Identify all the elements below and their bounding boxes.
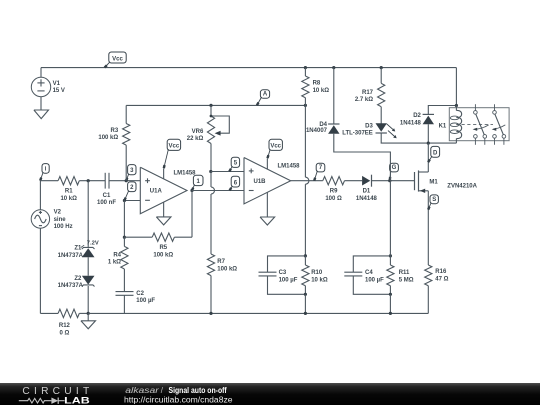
resistor R17 2.7 k: [380, 68, 382, 84]
junction coil top: [455, 104, 458, 107]
wire Vcc top rail: [41, 67, 456, 69]
svg-text:C2: C2: [136, 291, 144, 297]
svg-text:S: S: [432, 197, 436, 203]
svg-text:0 Ω: 0 Ω: [59, 331, 69, 337]
svg-text:http://circuitlab.com/cnda8ze: http://circuitlab.com/cnda8ze: [124, 396, 233, 405]
diode D1 1N4148: [362, 176, 370, 186]
svg-text:Vcc: Vcc: [270, 144, 281, 150]
junction rail/R17: [380, 66, 383, 69]
junction rail/R8: [304, 66, 307, 69]
U1B ground stub: [266, 192, 268, 217]
op-amp U1A LM1458: [140, 167, 187, 213]
svg-text:R9: R9: [330, 189, 338, 195]
potentiometer VR6 22 k: [210, 105, 212, 116]
node 6 flag: [231, 176, 239, 187]
svg-text:Z2: Z2: [74, 276, 82, 282]
svg-text:Z1: Z1: [74, 246, 82, 252]
svg-text:LM1458: LM1458: [278, 164, 301, 170]
svg-text:R8: R8: [313, 81, 321, 87]
resistor R7 100 k: [207, 254, 214, 276]
svg-text:A: A: [263, 92, 268, 98]
junction R10/rail: [304, 312, 307, 315]
svg-text:M1: M1: [429, 179, 438, 185]
svg-text:10 kΩ: 10 kΩ: [313, 88, 330, 94]
svg-text:Signal auto on-off: Signal auto on-off: [169, 386, 228, 395]
svg-text:G: G: [392, 165, 397, 171]
resistor R8 10 k: [304, 68, 306, 76]
capacitor C2 100 uF: [116, 291, 134, 293]
wire VR6 down to R7 with hop over pin6 wire: [210, 172, 212, 188]
svg-text:Vcc: Vcc: [112, 56, 123, 62]
node 2 flag: [128, 182, 136, 192]
relay K1 contact 1: [474, 104, 476, 110]
svg-text:R1: R1: [65, 189, 73, 195]
junction node G: [388, 179, 391, 182]
wire pin2 down to R4/R5 node: [123, 201, 125, 238]
node 3 flag: [128, 165, 136, 175]
junction D2/drain: [427, 142, 430, 145]
svg-text:ZVN4210A: ZVN4210A: [447, 183, 477, 189]
svg-text:D3: D3: [365, 124, 373, 130]
LED D3 light arrows: [387, 124, 394, 130]
svg-text:sine: sine: [54, 217, 67, 223]
relay K1 mechanical dashed link: [462, 124, 494, 126]
junction U1A output: [190, 189, 193, 192]
wire U1B output to node 7: [291, 180, 323, 182]
junction R4/R5: [123, 236, 126, 239]
junction C3/R10 bottom: [304, 293, 307, 296]
svg-text:1N4737A: 1N4737A: [58, 253, 84, 259]
wire R1 to C1: [79, 180, 105, 182]
svg-text:1N4737A: 1N4737A: [58, 283, 84, 289]
wire rail to D4: [333, 68, 335, 124]
voltage source V2 sine 100 Hz: [39, 181, 41, 210]
svg-text:D1: D1: [363, 189, 371, 195]
svg-text:LM1458: LM1458: [174, 171, 197, 177]
svg-text:100 kΩ: 100 kΩ: [98, 135, 118, 141]
junction A/VR6: [209, 104, 212, 107]
wire R5 to U1A output: [174, 236, 192, 238]
svg-text:D: D: [433, 151, 438, 157]
wire C1 to U1A pin3: [109, 180, 140, 182]
capacitor C3 100 uF: [268, 256, 306, 272]
junction R7/ground rail: [209, 312, 212, 315]
capacitor C1 100 nF: [104, 173, 106, 189]
diode D4 1N4007: [328, 123, 339, 125]
svg-text:R5: R5: [159, 245, 167, 251]
node S flag: [430, 195, 438, 204]
relay K1 contact 2: [494, 104, 496, 110]
wire node A horizontal: [126, 104, 305, 106]
svg-text:alkasar: alkasar: [125, 386, 159, 395]
node i flag: [42, 164, 49, 174]
junction R1/C1/Z1: [87, 179, 90, 182]
resistor R12 0 ohm: [58, 309, 79, 317]
wire Z2 to ground rail: [87, 286, 89, 313]
wire V2 top to R1: [40, 180, 58, 182]
svg-text:Vcc: Vcc: [169, 144, 180, 150]
svg-text:R7: R7: [217, 259, 225, 265]
svg-text:K1: K1: [439, 124, 447, 130]
wire Z chain from R1/C1 junction: [87, 181, 89, 248]
svg-text:R16: R16: [435, 269, 447, 275]
svg-text:R4: R4: [113, 252, 121, 258]
svg-text:R11: R11: [399, 270, 410, 276]
resistor R5 100 k: [152, 233, 174, 241]
junction A/R8: [304, 104, 307, 107]
svg-text:100 µF: 100 µF: [365, 278, 384, 284]
svg-text:22 kΩ: 22 kΩ: [187, 136, 204, 142]
svg-text:100 Ω: 100 Ω: [325, 196, 342, 202]
resistor R9 100 ohm: [323, 177, 345, 185]
MOSFET M1 ZVN4210A: [427, 143, 429, 172]
junction ground rail left: [87, 312, 90, 315]
node 7 flag: [316, 163, 325, 172]
wire R9 to D1: [345, 180, 363, 182]
junction VR6/pin5: [209, 170, 212, 173]
wire U1B pin5: [211, 171, 244, 173]
svg-text:100 kΩ: 100 kΩ: [153, 253, 173, 259]
resistor R11 5 M: [387, 265, 394, 286]
U1B Vcc stub: [266, 158, 268, 169]
node A flag: [260, 90, 269, 98]
wire D1 to MOSFET gate: [372, 180, 415, 182]
svg-text:VR6: VR6: [192, 129, 204, 135]
svg-text:R3: R3: [111, 128, 119, 134]
svg-text:5 MΩ: 5 MΩ: [399, 278, 414, 284]
svg-text:100 µF: 100 µF: [136, 298, 155, 304]
wire D4 to node G: [334, 134, 391, 181]
svg-text:1N4148: 1N4148: [356, 196, 378, 202]
svg-text:V1: V1: [53, 81, 61, 87]
power flag Vcc (U1B): [269, 139, 282, 150]
node G flag: [390, 163, 399, 172]
wire U1A out to U1B pin6: [192, 190, 244, 192]
svg-text:100 nF: 100 nF: [97, 200, 116, 206]
svg-text:D2: D2: [413, 113, 421, 119]
power flag Vcc (top): [109, 52, 126, 63]
wire R5 row: [124, 236, 152, 238]
svg-text:C1: C1: [103, 193, 111, 199]
zener diode Z1 1N4737A: [82, 247, 95, 249]
node 1 flag: [193, 175, 203, 185]
wire D2 top to coil junction: [428, 106, 456, 115]
U1A ground stub: [163, 202, 165, 217]
svg-text:100 µF: 100 µF: [279, 278, 298, 284]
wire U1A pin2: [124, 200, 140, 202]
VR6 wiper loop: [211, 116, 229, 133]
zener diode Z2 1N4737A: [82, 276, 95, 285]
svg-text:R10: R10: [311, 270, 323, 276]
resistor R1 10 k: [58, 177, 79, 185]
svg-text:LTL-307EE: LTL-307EE: [342, 130, 373, 136]
ground below V1: [34, 110, 49, 119]
junction C4/R11 bottom: [389, 293, 392, 296]
svg-text:1N4148: 1N4148: [400, 121, 422, 127]
svg-text:10 kΩ: 10 kΩ: [311, 278, 328, 284]
LED D3 LTL-307EE: [376, 132, 387, 134]
svg-text:U1B: U1B: [254, 179, 267, 185]
svg-text:R12: R12: [59, 323, 71, 329]
relay K1 coil: [455, 106, 457, 111]
svg-text:1N4007: 1N4007: [306, 128, 328, 134]
wire Z1 to Z2: [87, 257, 89, 276]
voltage source V1 15 V: [40, 68, 42, 78]
svg-text:1 kΩ: 1 kΩ: [108, 260, 121, 266]
svg-text:V2: V2: [54, 210, 62, 216]
svg-text:7.2V: 7.2V: [87, 240, 99, 246]
svg-text:LAB: LAB: [64, 395, 90, 405]
node D flag: [431, 146, 440, 157]
wire D3 to relay/D2 row: [381, 133, 456, 143]
resistor R3 100 k: [125, 105, 127, 123]
relay K1 box: [449, 108, 509, 141]
U1A Vcc stub: [163, 168, 165, 179]
ground at bottom rail: [87, 313, 89, 320]
wire Vcc rail drop to relay coil: [455, 68, 457, 106]
svg-text:10 kΩ: 10 kΩ: [60, 196, 77, 202]
svg-text:15 V: 15 V: [53, 88, 65, 94]
junction rail/D4: [332, 66, 335, 69]
op-amp U1B LM1458: [244, 158, 291, 204]
junction C4/R11 top: [389, 254, 392, 257]
svg-text:2.7 kΩ: 2.7 kΩ: [355, 97, 373, 103]
resistor R4 1 k: [123, 237, 125, 246]
wire bottom ground rail: [88, 312, 428, 314]
diode D2 1N4148: [423, 113, 434, 115]
svg-text:C3: C3: [279, 270, 287, 276]
capacitor C4 100 uF: [353, 256, 390, 272]
resistor R10 10 k: [302, 265, 309, 286]
junction C3/R10 top: [304, 254, 307, 257]
CircuitLab logo resistor-diode strip: [19, 398, 52, 403]
resistor R16 47 ohm: [425, 265, 432, 286]
junction pin3/R3: [125, 179, 128, 182]
power flag Vcc (U1A): [167, 139, 180, 150]
svg-text:R17: R17: [362, 90, 374, 96]
wire R8 down to C3/R10 with hop at output row: [304, 105, 306, 177]
junction R11/rail: [389, 312, 392, 315]
svg-text:U1A: U1A: [150, 189, 163, 195]
junction pin2/R4: [123, 199, 126, 202]
svg-text:C4: C4: [365, 270, 373, 276]
svg-text:100 kΩ: 100 kΩ: [217, 267, 237, 273]
svg-text:100 Hz: 100 Hz: [54, 224, 73, 230]
node 5 flag: [231, 157, 239, 167]
svg-text:47 Ω: 47 Ω: [435, 277, 448, 283]
